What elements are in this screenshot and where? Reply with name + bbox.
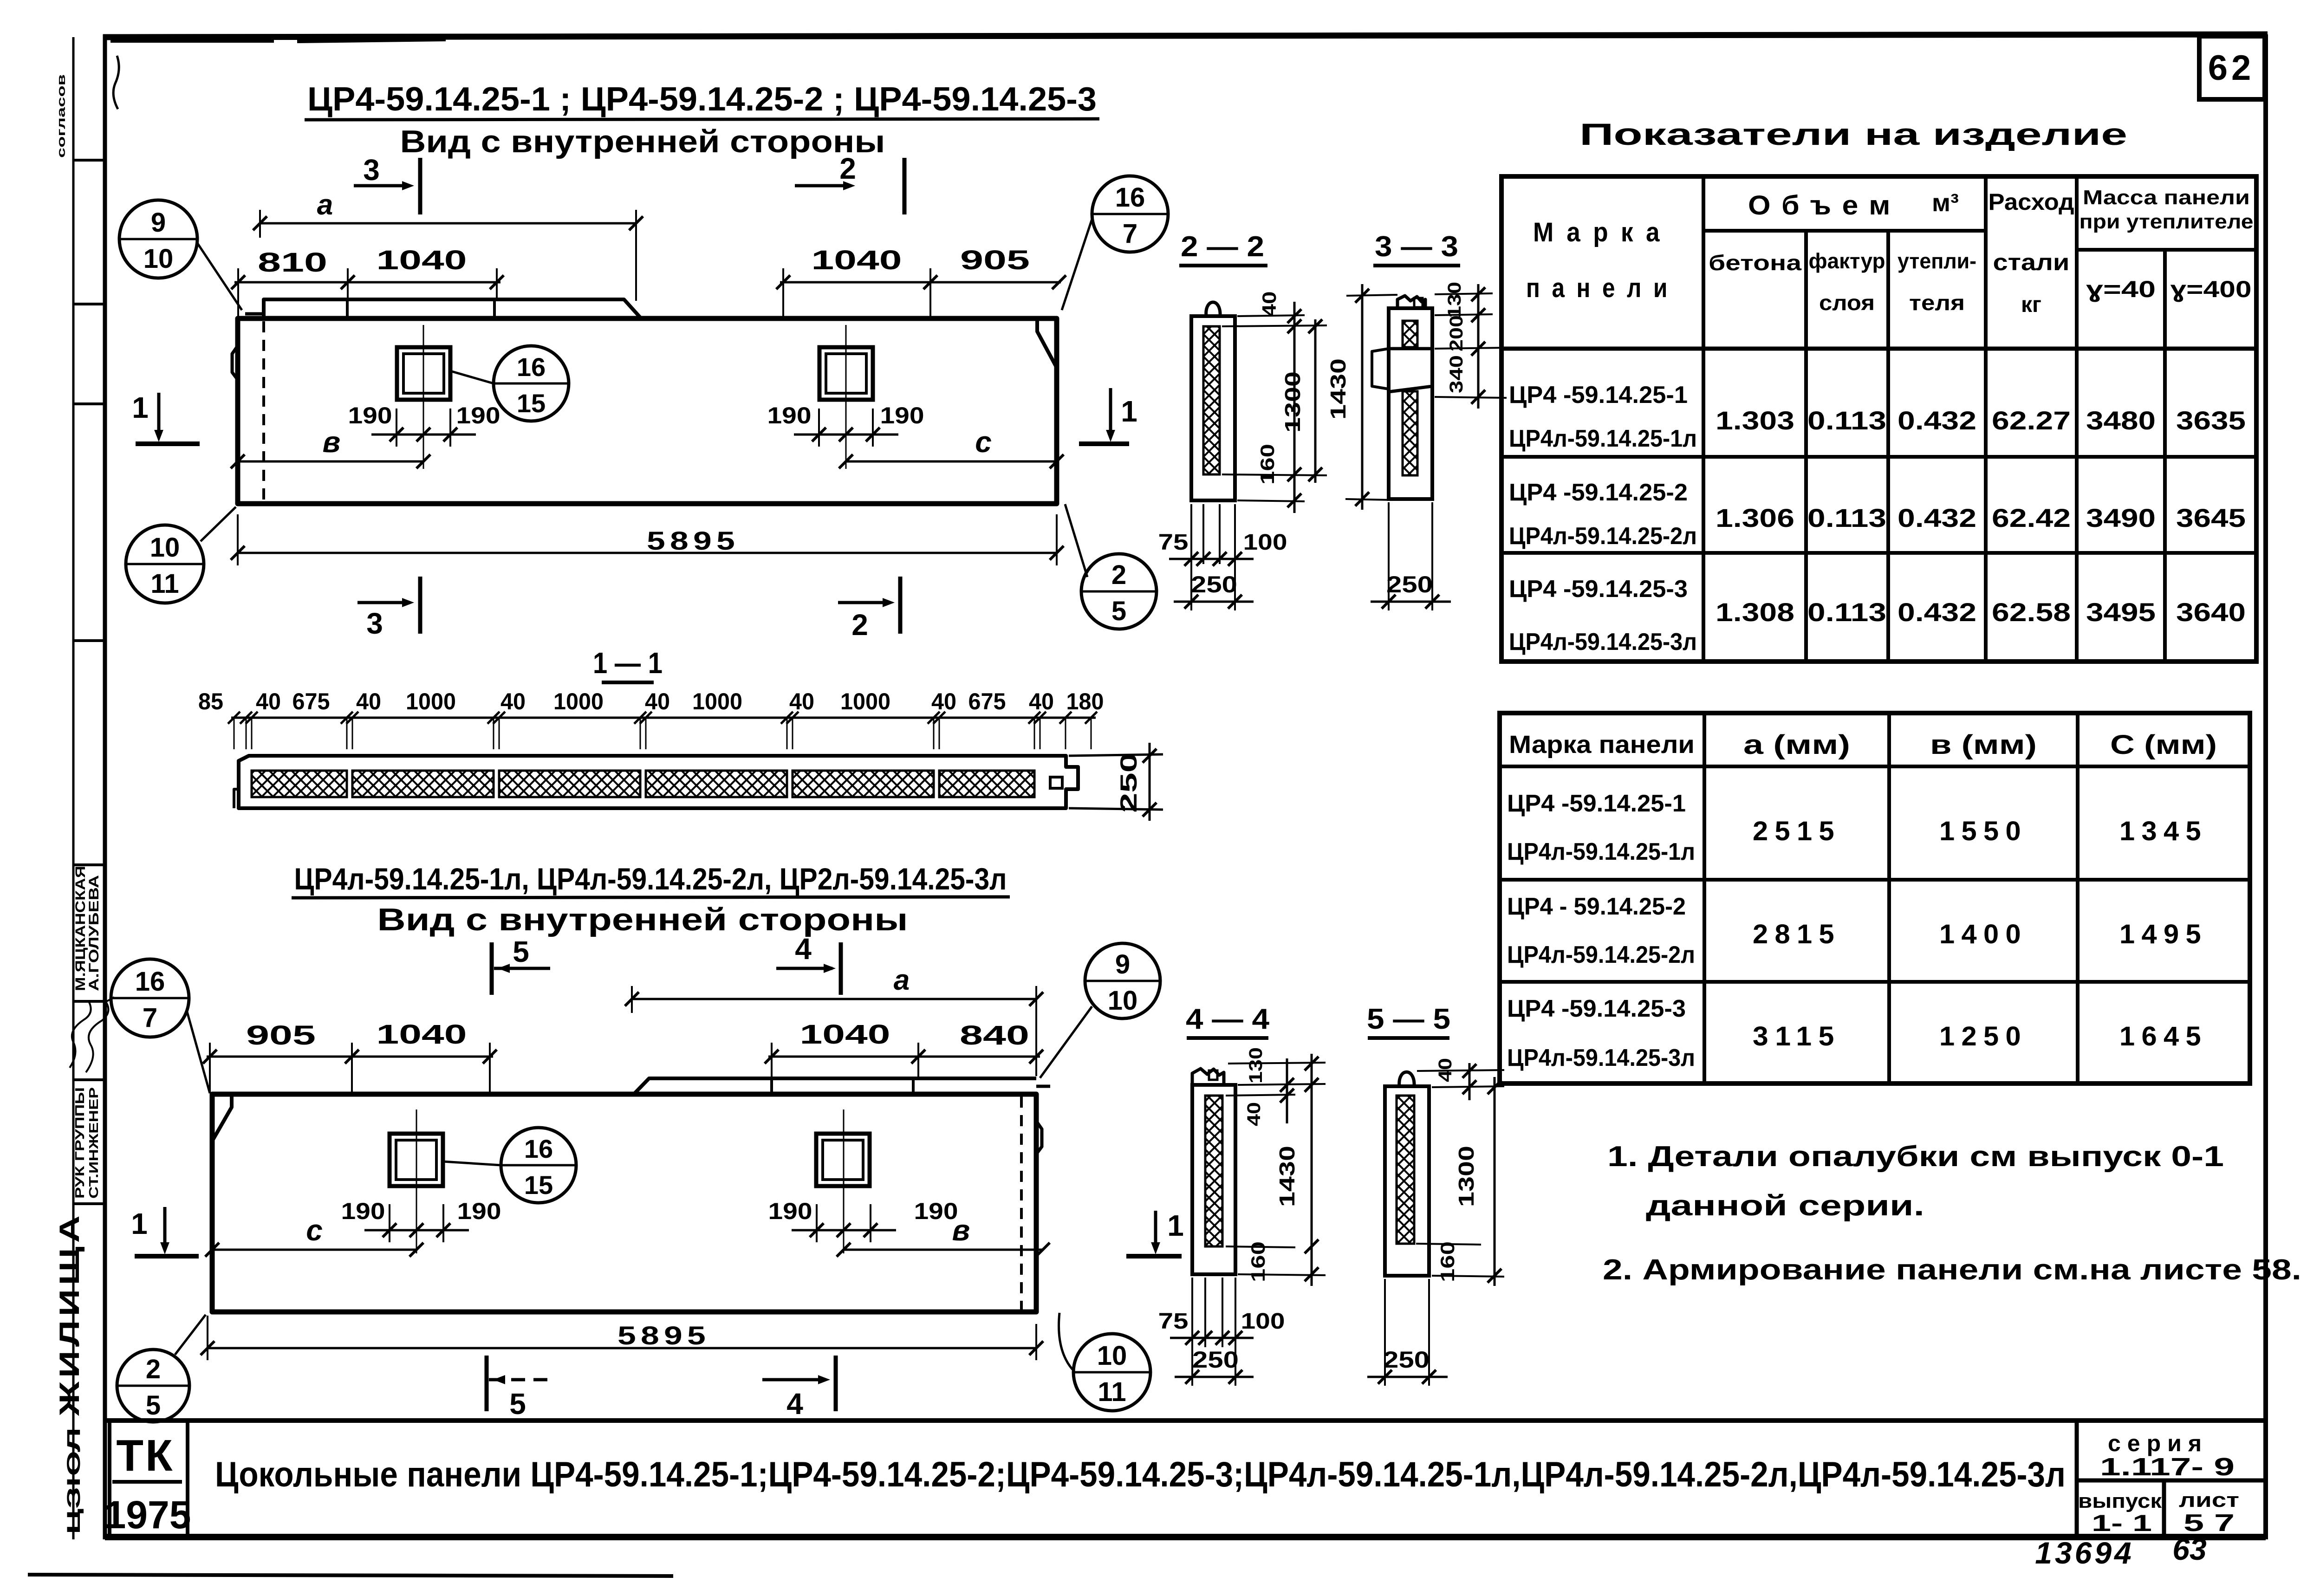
svg-text:190: 190 — [348, 402, 392, 428]
svg-text:1040: 1040 — [812, 245, 902, 275]
callout circle 16/15 (top panel) — [494, 346, 569, 421]
panel ЦР4 top lip — [264, 299, 641, 318]
title underline — [305, 119, 1099, 120]
hole 3 axis line — [416, 1109, 417, 1253]
section 3-3 lower witness lines — [1388, 502, 1390, 610]
svg-text:62.58: 62.58 — [1992, 597, 2071, 627]
svg-text:130: 130 — [1444, 282, 1465, 318]
svg-text:1. Детали опалубки см выпуск 0: 1. Детали опалубки см выпуск 0-1 — [1607, 1141, 2224, 1173]
svg-text:А.ГОЛУБЕВА: А.ГОЛУБЕВА — [86, 875, 102, 991]
svg-text:1300: 1300 — [1454, 1146, 1478, 1207]
callout circle 2/5 (bottom panel) — [117, 1349, 189, 1422]
section 1-1 panel strip outline — [239, 756, 1078, 808]
section 3-3 slot left bump — [1372, 349, 1389, 389]
svg-text:13694: 13694 — [2035, 1536, 2134, 1570]
hole 2 outer square — [819, 347, 873, 400]
svg-text:2815: 2815 — [1753, 919, 1841, 949]
svg-text:62.27: 62.27 — [1992, 406, 2071, 435]
panel left inner dashed line — [262, 321, 265, 501]
svg-text:a: a — [894, 964, 910, 996]
svg-text:1000: 1000 — [553, 688, 604, 714]
table 1 outer frame — [1501, 176, 2256, 662]
svg-text:100: 100 — [1243, 530, 1287, 555]
svg-text:ЦР4 -59.14.25-1: ЦР4 -59.14.25-1 — [1507, 790, 1686, 817]
svg-text:190: 190 — [767, 402, 812, 428]
svg-text:выпуск: выпуск — [2078, 1490, 2162, 1512]
section 4-4 dim line 75/100 — [1170, 1337, 1254, 1339]
callout circle 16/7 (bottom panel) — [111, 959, 189, 1037]
svg-text:Объем: Объем — [1748, 190, 1901, 221]
dimension в (bottom panel) — [844, 1249, 1043, 1251]
svg-text:905: 905 — [246, 1020, 316, 1051]
section 2-2 lower witness lines — [1190, 504, 1192, 610]
section 4-4 inner dim line — [1286, 1058, 1288, 1123]
svg-text:675: 675 — [968, 688, 1006, 714]
dimension c (top panel) — [846, 461, 1057, 463]
callout circle 16/15 (bottom panel) — [501, 1128, 576, 1203]
svg-text:данной серии.: данной серии. — [1646, 1190, 1924, 1222]
section 5-5 lower witness lines — [1384, 1279, 1386, 1386]
svg-text:160: 160 — [1256, 444, 1278, 485]
svg-text:1000: 1000 — [692, 688, 742, 714]
panel ЦР4л lip joint 2 — [912, 1078, 915, 1094]
svg-text:ЦР4л-59.14.25-1л, ЦР4л-59.14.2: ЦР4л-59.14.25-1л, ЦР4л-59.14.25-2л, ЦР2л… — [294, 862, 1007, 896]
svg-text:1040: 1040 — [800, 1019, 890, 1050]
svg-text:стали: стали — [1993, 249, 2070, 275]
section 2-2 insulation hatch — [1203, 326, 1220, 474]
section 1-1 right end detail square — [1050, 777, 1062, 788]
table 1 vertical lines — [1702, 176, 1705, 662]
panel lip left hook — [245, 312, 264, 316]
svg-text:0.113: 0.113 — [1807, 597, 1886, 627]
section 1-1 insulation hatch segment 6 — [939, 771, 1034, 797]
svg-text:СТ.ИНЖЕНЕР: СТ.ИНЖЕНЕР — [86, 1087, 101, 1199]
leader to 16/7 — [1062, 216, 1093, 310]
panel lip joint 2 — [493, 299, 496, 318]
dimension line 905 and 1040 (bottom left) — [207, 1056, 493, 1058]
svg-text:7: 7 — [1123, 219, 1137, 249]
svg-text:Цокольные панели ЦР4-59.14.25-: Цокольные панели ЦР4-59.14.25-1;ЦР4-59.1… — [215, 1455, 2066, 1494]
section 3-3 right dim extensions — [1435, 293, 1493, 294]
svg-text:160: 160 — [1247, 1241, 1269, 1282]
section 1-1 dimension ticks — [228, 712, 240, 724]
table 2 vertical lines — [1703, 713, 1706, 1083]
section 5-5 body outline — [1385, 1086, 1429, 1276]
svg-text:с: с — [306, 1213, 323, 1247]
svg-text:3645: 3645 — [2176, 503, 2246, 532]
section 2-2 lifting loop — [1206, 302, 1220, 316]
svg-text:в (мм): в (мм) — [1930, 730, 2037, 760]
svg-text:4 — 4: 4 — 4 — [1186, 1003, 1270, 1035]
svg-text:ЦР4 -59.14.25-2: ЦР4 -59.14.25-2 — [1509, 479, 1688, 506]
svg-text:11: 11 — [1098, 1377, 1126, 1407]
section 1-1 insulation hatch segment 2 — [352, 771, 494, 797]
section 5-5 dim line 250 — [1367, 1376, 1448, 1378]
title block top line — [105, 1418, 2266, 1423]
svg-text:15: 15 — [517, 389, 546, 418]
hole 2 inner square — [826, 354, 866, 393]
section 2-2 dim line 75/100 — [1169, 558, 1254, 560]
section 3-3 right dim line — [1477, 284, 1480, 409]
hole 3 inner square — [396, 1140, 436, 1180]
leader to 10/11 — [201, 507, 236, 541]
hole 4 outer square — [816, 1134, 870, 1186]
svg-text:16: 16 — [135, 967, 165, 997]
svg-text:190: 190 — [456, 402, 500, 428]
svg-text:5895: 5895 — [647, 526, 740, 555]
section 3-3 body outline — [1389, 308, 1432, 499]
svg-text:4: 4 — [786, 1387, 803, 1421]
leader to 9/10 — [197, 242, 242, 310]
svg-text:40: 40 — [1258, 292, 1280, 317]
sheet frame outer left line — [72, 37, 75, 1539]
svg-text:340: 340 — [1446, 355, 1467, 393]
table 1 row line 2 — [1501, 551, 2256, 555]
sheet frame left border — [103, 34, 107, 1539]
sheet frame right border — [2263, 34, 2268, 1539]
svg-text:40: 40 — [1244, 1102, 1264, 1126]
svg-text:5 — 5: 5 — 5 — [1367, 1003, 1450, 1035]
svg-text:лист: лист — [2179, 1489, 2239, 1512]
dimension 190+190 hole 3 — [364, 1229, 469, 1232]
svg-text:3495: 3495 — [2086, 597, 2156, 627]
svg-text:в: в — [952, 1213, 970, 1247]
svg-text:слоя: слоя — [1819, 291, 1875, 315]
section mark 5 top — [490, 942, 494, 995]
svg-text:ЦР4л-59.14.25-1л: ЦР4л-59.14.25-1л — [1507, 838, 1695, 865]
dimension 250 (section 1-1) — [1069, 754, 1163, 756]
svg-text:160: 160 — [1436, 1241, 1458, 1282]
svg-text:190: 190 — [880, 402, 924, 428]
svg-text:1430: 1430 — [1326, 358, 1350, 420]
section mark 2 bottom — [838, 601, 889, 604]
section 1-1 left end step — [234, 789, 239, 808]
svg-text:2: 2 — [146, 1354, 161, 1384]
svg-text:2 — 2: 2 — 2 — [1181, 231, 1264, 263]
svg-text:40: 40 — [256, 688, 281, 714]
TK underline — [112, 1480, 182, 1484]
section 4-4 knob inner mark — [1209, 1070, 1217, 1080]
panel ЦР4л left top notch — [212, 1094, 232, 1141]
svg-text:2. Армирование панели см.на ли: 2. Армирование панели см.на листе 58. — [1603, 1254, 2301, 1286]
section 1-1 dimension chain line — [231, 717, 1096, 719]
svg-text:1645: 1645 — [2119, 1021, 2208, 1051]
page number box — [2199, 36, 2265, 99]
dimension line 1040 and 840 (bottom right) — [768, 1056, 1040, 1058]
panel ЦР4л body outline — [212, 1094, 1036, 1312]
svg-text:1300: 1300 — [1280, 371, 1305, 433]
section 4-4 lower witness lines — [1191, 1278, 1193, 1386]
hole 3 outer square — [390, 1134, 443, 1186]
dimension 190+190 hole 4 — [792, 1229, 896, 1232]
svg-text:1: 1 — [1121, 395, 1137, 428]
section 1-1 insulation hatch segment 5 — [793, 771, 934, 797]
svg-text:ЦР4л-59.14.25-1л: ЦР4л-59.14.25-1л — [1509, 425, 1697, 452]
svg-text:бетона: бетона — [1709, 251, 1802, 275]
svg-text:1430: 1430 — [1275, 1146, 1299, 1207]
svg-text:2: 2 — [839, 152, 856, 185]
svg-text:Показатели на изделие: Показатели на изделие — [1579, 117, 2127, 151]
hole 1 inner square — [403, 354, 444, 393]
svg-text:ЦР4 -59.14.25-3: ЦР4 -59.14.25-3 — [1507, 995, 1686, 1022]
scan noise top left — [110, 35, 274, 43]
leader to 16/7 bottom — [187, 1010, 210, 1093]
svg-text:утепли-: утепли- — [1898, 249, 1976, 273]
section 2-2 dim extension lines — [1237, 315, 1305, 316]
svg-text:Масса панели: Масса панели — [2083, 186, 2250, 209]
svg-text:75: 75 — [1158, 1309, 1189, 1334]
svg-text:1 — 1: 1 — 1 — [593, 646, 663, 680]
svg-text:7: 7 — [143, 1003, 157, 1033]
TK 1975 stamp box — [108, 1421, 111, 1538]
svg-text:ЦР4л-59.14.25-3л: ЦР4л-59.14.25-3л — [1509, 629, 1697, 655]
stamp signatures scribble — [70, 1000, 91, 1068]
svg-text:250: 250 — [1192, 1347, 1239, 1373]
svg-text:1345: 1345 — [2119, 816, 2208, 846]
bottom left partial scan line — [28, 1575, 673, 1576]
svg-text:1.306: 1.306 — [1716, 503, 1794, 532]
svg-text:40: 40 — [789, 688, 814, 714]
leader to 9/10 bottom — [1040, 1006, 1092, 1078]
svg-text:3635: 3635 — [2176, 406, 2246, 435]
svg-text:1000: 1000 — [840, 688, 890, 714]
svg-text:190: 190 — [457, 1198, 501, 1224]
dimension line 1040 and 905 (top right) — [780, 281, 1061, 284]
svg-text:1040: 1040 — [377, 1019, 467, 1050]
leader to circle 16/15 bottom — [443, 1161, 501, 1165]
dimension в (top panel) — [238, 461, 423, 463]
panel ЦР4л right edge bump — [1036, 1121, 1042, 1154]
section 4-4 dim line 250 — [1175, 1376, 1254, 1378]
svg-text:ЦЗЮЛ: ЦЗЮЛ — [64, 1427, 84, 1534]
svg-text:ТК: ТК — [116, 1431, 174, 1480]
section 3-3 knob inner mark — [1414, 298, 1423, 307]
svg-text:1- 1: 1- 1 — [2092, 1510, 2152, 1536]
svg-text:0.113: 0.113 — [1807, 406, 1886, 435]
svg-text:1040: 1040 — [377, 245, 467, 275]
svg-text:1.117- 9: 1.117- 9 — [2100, 1453, 2235, 1481]
dimension 5895 (bottom panel) — [208, 1347, 1036, 1349]
svg-text:840: 840 — [960, 1020, 1029, 1051]
svg-text:2: 2 — [851, 608, 868, 642]
svg-text:С (мм): С (мм) — [2110, 730, 2217, 760]
svg-text:4: 4 — [795, 932, 812, 966]
svg-text:1000: 1000 — [406, 688, 456, 714]
svg-text:ɣ=40: ɣ=40 — [2086, 276, 2156, 302]
svg-text:9: 9 — [1115, 949, 1130, 980]
panel lip joint 1 — [346, 299, 349, 318]
table 2 horizontal lines — [1500, 765, 2250, 768]
section 4-4 insulation hatch — [1205, 1096, 1222, 1246]
svg-text:ЦР4 -59.14.25-1: ЦР4 -59.14.25-1 — [1509, 382, 1688, 409]
panel ЦР4л lip joint 1 — [770, 1078, 773, 1094]
svg-text:0.113: 0.113 — [1807, 503, 1886, 532]
section 1-1 insulation hatch segment 1 — [252, 771, 347, 797]
svg-text:75: 75 — [1158, 530, 1189, 555]
svg-text:1: 1 — [1167, 1209, 1184, 1242]
svg-text:РУК ГРУППЫ: РУК ГРУППЫ — [72, 1087, 87, 1199]
panel right top notch — [1037, 318, 1057, 368]
panel ЦР4л right inner dashed line — [1020, 1096, 1023, 1310]
svg-text:3490: 3490 — [2086, 503, 2156, 532]
svg-text:100: 100 — [1241, 1309, 1285, 1334]
svg-text:0.432: 0.432 — [1898, 503, 1976, 532]
svg-text:190: 190 — [341, 1198, 385, 1224]
callout circle 10/11 — [126, 525, 204, 603]
svg-text:Расход: Расход — [1989, 189, 2074, 215]
svg-text:3640: 3640 — [2176, 597, 2246, 627]
callout circle 10/11 (bottom panel) — [1073, 1334, 1150, 1411]
svg-text:ЖИЛИЩА: ЖИЛИЩА — [54, 1212, 85, 1416]
hole 2 axis line — [845, 325, 847, 469]
section 1-1 insulation hatch segment 3 — [499, 771, 640, 797]
svg-text:250: 250 — [1386, 571, 1433, 597]
section 3-3 lower insulation hatch — [1403, 391, 1417, 475]
svg-text:a: a — [317, 189, 333, 221]
sheet frame top border — [103, 34, 2268, 37]
table 1 subheader line under Objem — [1703, 229, 1986, 233]
dimension a (top panel) — [260, 222, 636, 225]
section 3-3 slot upper line — [1389, 347, 1432, 350]
svg-text:Вид с внутренней стороны: Вид с внутренней стороны — [400, 124, 885, 159]
section 2-2 body outline — [1191, 316, 1235, 500]
leader to 10/11 bottom — [1059, 1313, 1072, 1369]
table 1 row line 1 — [1501, 455, 2256, 459]
svg-text:ЦР4-59.14.25-1 ; ЦР4-59.14.25-: ЦР4-59.14.25-1 ; ЦР4-59.14.25-2 ; ЦР4-59… — [307, 81, 1097, 118]
svg-text:1: 1 — [131, 1207, 148, 1240]
svg-text:180: 180 — [1066, 688, 1104, 714]
stamp column tick marks — [73, 159, 105, 162]
svg-text:с: с — [975, 425, 992, 459]
seriya box left line — [2075, 1421, 2079, 1537]
svg-text:3 — 3: 3 — 3 — [1375, 231, 1458, 263]
svg-text:0.432: 0.432 — [1898, 406, 1976, 435]
svg-text:11: 11 — [150, 569, 179, 599]
svg-text:40: 40 — [500, 688, 526, 714]
svg-text:40: 40 — [1029, 688, 1054, 714]
svg-text:серия: серия — [2108, 1430, 2208, 1456]
svg-text:250: 250 — [1383, 1347, 1430, 1373]
svg-text:ЦР4 - 59.14.25-2: ЦР4 - 59.14.25-2 — [1507, 893, 1686, 920]
svg-text:62: 62 — [2208, 48, 2255, 88]
hole 1 outer square — [397, 347, 450, 400]
svg-text:ЦР4л-59.14.25-2л: ЦР4л-59.14.25-2л — [1509, 523, 1697, 550]
svg-text:5: 5 — [509, 1387, 526, 1421]
svg-text:3115: 3115 — [1753, 1021, 1841, 1051]
svg-text:16: 16 — [524, 1134, 553, 1163]
leader line to circle 16/15 — [448, 370, 494, 383]
section 2-2 dim line 40/160 — [1293, 302, 1296, 513]
svg-text:ЦР4 -59.14.25-3: ЦР4 -59.14.25-3 — [1509, 576, 1688, 603]
svg-text:1550: 1550 — [1939, 816, 2028, 846]
section 1-1 witness lines — [234, 718, 235, 749]
svg-text:1400: 1400 — [1939, 919, 2028, 949]
callout circle 9/10 — [119, 200, 197, 278]
leader to 2/5 — [1065, 504, 1087, 577]
svg-text:Марка панели: Марка панели — [1509, 731, 1695, 759]
svg-text:40: 40 — [1435, 1058, 1456, 1082]
svg-text:ЦР4л-59.14.25-3л: ЦР4л-59.14.25-3л — [1507, 1045, 1695, 1071]
svg-text:9: 9 — [151, 208, 166, 238]
svg-text:905: 905 — [960, 245, 1030, 275]
svg-text:10: 10 — [143, 244, 174, 274]
scan noise top left squiggle — [113, 56, 119, 109]
section 5-5 insulation hatch — [1397, 1096, 1414, 1244]
svg-text:1250: 1250 — [1939, 1021, 2028, 1051]
table 1 subheader line under Massa — [2077, 248, 2256, 252]
svg-text:85: 85 — [198, 688, 223, 714]
seriya box divider — [2077, 1479, 2266, 1483]
svg-text:м³: м³ — [1932, 189, 1959, 217]
svg-text:250: 250 — [1116, 753, 1142, 813]
section mark 4 bottom — [762, 1378, 825, 1382]
svg-text:a (мм): a (мм) — [1743, 730, 1850, 760]
section mark 3 bottom — [357, 601, 409, 604]
svg-text:1: 1 — [132, 391, 149, 424]
callout circle 9/10 (bottom panel) — [1085, 943, 1160, 1019]
svg-text:2515: 2515 — [1753, 816, 1841, 846]
svg-text:кг: кг — [2021, 292, 2041, 317]
section 3-3 dim line 250 — [1371, 601, 1451, 603]
seriya box vertical divider — [2162, 1480, 2166, 1537]
svg-text:фактур: фактур — [1809, 249, 1885, 273]
svg-text:190: 190 — [914, 1198, 958, 1224]
svg-text:200: 200 — [1446, 315, 1467, 351]
section 1-1 insulation hatch segment 4 — [646, 771, 787, 797]
section 4-4 right dim line — [1311, 1054, 1313, 1286]
svg-text:10: 10 — [150, 532, 180, 563]
svg-text:панели: панели — [1526, 273, 1679, 303]
section 3-3 upper insulation hatch — [1403, 321, 1417, 347]
dimension 190+190 hole 2 — [794, 434, 898, 436]
svg-text:теля: теля — [1909, 291, 1965, 315]
svg-text:Вид с внутренней стороны: Вид с внутренней стороны — [377, 902, 908, 937]
svg-text:ɣ=400: ɣ=400 — [2171, 276, 2252, 302]
svg-text:190: 190 — [768, 1198, 812, 1224]
svg-text:2: 2 — [1111, 560, 1126, 590]
dimension 5895 (top panel) — [238, 552, 1057, 554]
svg-text:в: в — [323, 425, 341, 459]
svg-text:130: 130 — [1246, 1047, 1266, 1083]
svg-text:5: 5 — [513, 935, 529, 968]
section 5-5 right dim line — [1494, 1077, 1496, 1286]
section 5-5 inner dim tick 40 — [1469, 1063, 1471, 1100]
svg-text:1975: 1975 — [104, 1493, 191, 1537]
svg-text:63: 63 — [2172, 1532, 2206, 1566]
svg-text:согласов: согласов — [55, 74, 68, 158]
table 1 header separator — [1501, 347, 2256, 351]
panel ЦР4л top lip — [634, 1078, 1036, 1094]
svg-text:675: 675 — [292, 688, 330, 714]
svg-text:3: 3 — [363, 153, 380, 187]
hole 1 axis line — [423, 325, 424, 469]
svg-text:5: 5 — [1111, 596, 1126, 626]
svg-text:ЦР4л-59.14.25-2л: ЦР4л-59.14.25-2л — [1507, 941, 1695, 968]
panel ЦР4 body outline — [238, 318, 1057, 504]
svg-text:40: 40 — [931, 688, 956, 714]
section 3-3 slot lower line — [1389, 386, 1432, 392]
section 3-3 dim 1430 line — [1361, 284, 1364, 510]
svg-text:16: 16 — [1115, 182, 1145, 213]
svg-text:10: 10 — [1097, 1341, 1127, 1371]
svg-text:1.303: 1.303 — [1716, 406, 1794, 435]
dimension line 810 and 1040 (top left) — [234, 281, 500, 284]
svg-text:5895: 5895 — [617, 1321, 710, 1350]
section mark 5 bottom — [485, 1356, 489, 1411]
callout circle 16/7 — [1092, 176, 1168, 252]
svg-text:40: 40 — [356, 688, 381, 714]
svg-text:62.42: 62.42 — [1992, 503, 2071, 532]
